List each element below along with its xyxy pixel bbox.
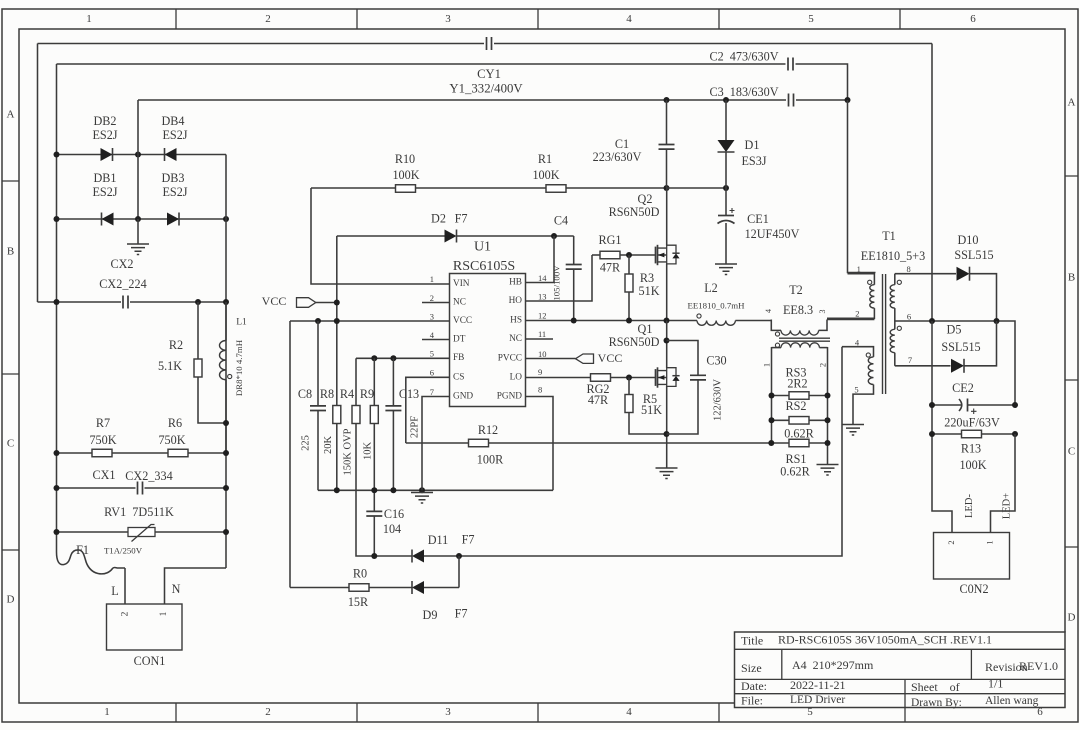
svg-text:4: 4	[430, 330, 435, 340]
wire VIN feed	[311, 188, 450, 284]
node DB1 row left	[54, 216, 60, 222]
svg-text:T1A/250V: T1A/250V	[104, 546, 143, 556]
svg-text:VCC: VCC	[598, 351, 623, 365]
capacitor CE1	[725, 188, 727, 215]
svg-text:22PF: 22PF	[409, 416, 420, 438]
svg-text:R9: R9	[360, 387, 374, 401]
svg-text:D2: D2	[431, 211, 446, 225]
node rail D1/CE1	[723, 185, 729, 191]
wire D10 row pin8	[895, 273, 956, 275]
svg-text:220uF/63V: 220uF/63V	[944, 415, 1000, 429]
ground Q1 source	[656, 468, 678, 479]
svg-text:VIN: VIN	[453, 279, 470, 289]
node ground row R9	[371, 487, 377, 493]
resistor R8	[333, 406, 341, 424]
node R13 right	[1012, 431, 1018, 437]
node CE2 right	[1012, 402, 1018, 408]
wire CON1 pin N	[165, 568, 227, 604]
svg-text:C8: C8	[298, 387, 312, 401]
transformer T2 secondary	[772, 347, 782, 349]
wire C3 rail to T1 pin1	[848, 100, 876, 273]
capacitor C16	[373, 490, 375, 511]
svg-text:C0N2: C0N2	[959, 582, 988, 596]
diode DB1	[102, 213, 114, 226]
svg-text:DB1: DB1	[93, 171, 116, 185]
node ground row C13	[390, 487, 396, 493]
node C2/C3 junction	[845, 97, 851, 103]
wire CS pin6 feed	[406, 377, 450, 443]
capacitor CX2	[123, 296, 128, 309]
resistor RS3	[789, 392, 809, 400]
svg-text:PGND: PGND	[497, 392, 523, 402]
diode DB4	[165, 148, 177, 161]
wire R12 row CS sense	[406, 442, 469, 444]
svg-text:C13: C13	[399, 387, 419, 401]
wire rail C2 net right	[796, 64, 848, 100]
node D11 cathode-D9 join	[456, 553, 462, 559]
resistor RG2	[591, 374, 611, 382]
wire CX2 row	[38, 301, 122, 303]
node R2/L1 bottom join	[223, 420, 229, 426]
wire D2 row	[337, 235, 445, 237]
svg-text:R3: R3	[640, 271, 654, 285]
diode D1	[725, 100, 727, 140]
node DB2 row left	[54, 152, 60, 158]
svg-text:RS6N50D: RS6N50D	[609, 205, 660, 219]
svg-text:Q2: Q2	[638, 192, 653, 206]
svg-text:RG1: RG1	[598, 233, 621, 247]
svg-text:D: D	[7, 594, 15, 606]
svg-text:CE1: CE1	[747, 212, 769, 226]
capacitor C30	[667, 341, 699, 376]
svg-text:B: B	[1068, 272, 1075, 284]
svg-text:RV1 7D511K: RV1 7D511K	[104, 505, 174, 519]
svg-text:D1: D1	[745, 138, 760, 152]
wire GND pin7 feed	[422, 397, 450, 491]
node R7 row right	[223, 450, 229, 456]
resistor R6	[168, 449, 188, 457]
wire HO pin13 feed	[526, 255, 593, 301]
svg-text:8: 8	[538, 384, 542, 394]
svg-text:750K: 750K	[158, 433, 185, 447]
transistor Q2	[655, 247, 657, 264]
wire top rail CY1 net	[38, 43, 485, 45]
wire D11 row	[374, 555, 412, 557]
svg-text:ES2J: ES2J	[162, 185, 187, 199]
svg-text:HS: HS	[510, 316, 522, 326]
svg-text:EE1810_5+3: EE1810_5+3	[861, 249, 925, 263]
svg-text:1: 1	[761, 363, 771, 367]
node RV1 row left	[54, 529, 60, 535]
svg-text:DB4: DB4	[161, 114, 184, 128]
svg-text:CS: CS	[453, 373, 464, 383]
svg-text:C1: C1	[615, 137, 629, 151]
svg-text:RSC6105S: RSC6105S	[453, 259, 515, 274]
node C3 rail D1 tap	[723, 97, 729, 103]
svg-text:B: B	[7, 246, 14, 258]
svg-text:U1: U1	[474, 240, 491, 255]
diode D10	[957, 267, 970, 281]
svg-text:104: 104	[383, 522, 401, 536]
node ground row R8	[334, 487, 340, 493]
svg-text:CX2: CX2	[110, 257, 133, 271]
svg-text:File:: File:	[741, 693, 763, 707]
wire HB pin feed	[526, 236, 555, 283]
wire U1 pin4 DT stub	[422, 339, 450, 341]
svg-text:100R: 100R	[477, 452, 504, 466]
svg-text:7: 7	[430, 387, 434, 397]
wire Q1 source	[666, 386, 668, 468]
ground RS1 right rail	[817, 465, 839, 476]
wire T2 secondary left rail	[771, 347, 773, 443]
svg-text:D: D	[1068, 612, 1076, 624]
border column ticks top	[176, 9, 900, 29]
resistor R3	[628, 255, 630, 274]
svg-text:1: 1	[430, 274, 434, 284]
resistor R9	[373, 358, 375, 405]
svg-text:Drawn By:: Drawn By:	[911, 697, 962, 709]
node DB1 row center	[135, 216, 141, 222]
svg-text:10K: 10K	[362, 442, 373, 461]
svg-text:2: 2	[946, 540, 956, 544]
svg-text:4: 4	[626, 706, 632, 718]
svg-text:NC: NC	[509, 334, 522, 344]
svg-text:C: C	[1068, 446, 1075, 458]
svg-text:C: C	[7, 438, 14, 450]
svg-text:10: 10	[538, 349, 547, 359]
wire ground row	[318, 489, 553, 491]
transformer T1 core	[883, 274, 886, 394]
capacitor C13	[392, 358, 394, 406]
wire D11 to aux winding	[424, 347, 842, 556]
wire RS2 row	[772, 419, 790, 421]
svg-text:47R: 47R	[588, 393, 609, 407]
svg-text:F7: F7	[455, 211, 468, 225]
transformer T2 core	[779, 338, 830, 341]
wire U1 pin11 NC stub	[526, 338, 554, 340]
svg-text:223/630V: 223/630V	[593, 150, 642, 164]
wire DB2-DB4 row	[57, 154, 227, 156]
svg-text:L1: L1	[236, 318, 247, 328]
svg-text:1: 1	[86, 13, 92, 25]
svg-text:R7: R7	[96, 416, 110, 430]
wire right bridge rail	[225, 155, 227, 569]
wire left dropper x290	[289, 321, 291, 588]
capacitor CX1	[138, 482, 143, 495]
wire RS1 row	[772, 442, 790, 444]
svg-text:PVCC: PVCC	[498, 354, 522, 364]
svg-text:1/1: 1/1	[988, 676, 1003, 690]
capacitor C8	[317, 321, 319, 406]
wire rail C3 net left	[138, 99, 786, 101]
border column ticks bottom	[176, 703, 719, 722]
varistor RV1	[128, 528, 155, 537]
svg-text:3: 3	[818, 310, 827, 314]
svg-text:LO: LO	[510, 373, 523, 383]
diode DB3	[167, 213, 179, 226]
wire top rail right drop to T1 pin6 row	[931, 44, 933, 322]
svg-text:3: 3	[430, 311, 434, 321]
node HS Q2 source	[664, 318, 670, 324]
svg-text:12: 12	[538, 310, 547, 320]
svg-text:F7: F7	[462, 532, 475, 546]
capacitor C2	[788, 58, 793, 71]
node RG1/R3/Q2 gate	[626, 252, 632, 258]
node CX1 row left	[54, 485, 60, 491]
node C3 rail C1 tap	[664, 97, 670, 103]
svg-text:ES3J: ES3J	[741, 154, 766, 168]
svg-text:ES2J: ES2J	[92, 185, 117, 199]
transformer T2 primary	[771, 320, 781, 331]
svg-text:REV1.0: REV1.0	[1019, 659, 1058, 673]
capacitor C4	[573, 236, 575, 265]
wire pin6 row	[895, 321, 1015, 405]
resistor RG1	[592, 254, 600, 256]
svg-text:2: 2	[121, 611, 131, 616]
node HS R3	[626, 318, 632, 324]
diode DB2	[101, 148, 113, 161]
svg-text:Date:: Date:	[741, 679, 767, 693]
svg-text:14: 14	[538, 273, 547, 283]
svg-text:T1: T1	[882, 229, 896, 243]
svg-text:15R: 15R	[348, 595, 369, 609]
node D11 row R4/C16 join	[371, 553, 377, 559]
svg-text:DT: DT	[453, 335, 466, 345]
resistor RS1	[789, 439, 809, 447]
svg-text:HB: HB	[509, 278, 522, 288]
node HS C4	[571, 318, 577, 324]
node RV1 row right	[223, 529, 229, 535]
node pin6 rail from top	[929, 318, 935, 324]
resistor R10	[396, 185, 416, 193]
svg-text:EE8.3: EE8.3	[783, 303, 813, 317]
wire VCC row pin3	[290, 320, 450, 322]
op-amp U1 RSC6105S box	[450, 274, 526, 407]
svg-text:0.62R: 0.62R	[784, 426, 814, 440]
wire RV1 row	[57, 531, 227, 533]
svg-text:3: 3	[445, 13, 451, 25]
svg-text:R10: R10	[395, 152, 415, 166]
connector CON1	[107, 604, 183, 650]
svg-text:R0: R0	[353, 566, 367, 580]
node ground row gnd stem	[419, 487, 425, 493]
svg-text:6: 6	[430, 367, 434, 377]
diode D5	[895, 365, 951, 367]
resistor R0	[349, 584, 369, 592]
wire rail to D1/CE1	[667, 187, 727, 189]
svg-text:A4 210*297mm: A4 210*297mm	[792, 658, 874, 672]
svg-text:5.1K: 5.1K	[158, 359, 182, 373]
svg-text:R2: R2	[169, 338, 183, 352]
diode D11	[412, 550, 424, 563]
capacitor C3	[789, 94, 794, 107]
resistor R5	[628, 378, 630, 395]
svg-text:DB2: DB2	[93, 114, 116, 128]
svg-text:Sheet of: Sheet of	[911, 680, 960, 694]
svg-text:CX1: CX1	[92, 468, 115, 482]
resistor R1	[546, 185, 566, 193]
svg-text:SSL515: SSL515	[941, 340, 980, 354]
svg-text:12UF450V: 12UF450V	[745, 227, 800, 241]
svg-text:7: 7	[908, 355, 912, 365]
svg-text:LED+: LED+	[1001, 493, 1012, 519]
svg-text:2: 2	[265, 706, 271, 718]
transistor Q1	[655, 369, 657, 386]
inductor L2	[697, 321, 735, 326]
wire R0 row	[290, 587, 349, 589]
svg-text:HO: HO	[509, 296, 523, 306]
svg-text:Allen wang: Allen wang	[985, 695, 1039, 707]
svg-text:ES2J: ES2J	[92, 128, 117, 142]
svg-text:1: 1	[857, 264, 861, 274]
svg-text:11: 11	[538, 329, 546, 339]
node rail C1/Q2 drain	[664, 185, 670, 191]
svg-text:2: 2	[430, 293, 434, 303]
wire T2 to T1 pin2	[827, 319, 874, 321]
wire RS3 row	[772, 395, 790, 397]
wire R7-R6 row	[57, 452, 227, 454]
ground CE1	[715, 264, 737, 275]
node R13 left	[929, 431, 935, 437]
svg-text:RS2: RS2	[785, 399, 806, 413]
svg-text:51K: 51K	[641, 403, 662, 417]
node CE2 left	[929, 402, 935, 408]
wire D9 riser	[458, 556, 460, 588]
transformer T1 secondary upper	[894, 274, 896, 285]
diode D2	[445, 230, 457, 243]
svg-text:100K: 100K	[392, 168, 419, 182]
wire rail C2 net left	[57, 63, 786, 65]
wire CX1 row	[57, 487, 136, 489]
node DB1 row right	[223, 216, 229, 222]
svg-text:F1: F1	[76, 543, 89, 557]
svg-text:225: 225	[300, 435, 311, 451]
ground T1 pin5	[842, 425, 864, 436]
svg-text:100K: 100K	[532, 168, 559, 182]
svg-text:R13: R13	[961, 441, 981, 455]
svg-text:CX2_334: CX2_334	[125, 469, 172, 483]
node RS3 right	[825, 393, 831, 399]
svg-text:DB3: DB3	[161, 171, 184, 185]
node RS1 right	[825, 440, 831, 446]
wire LO pin9 feed	[526, 377, 591, 379]
node CX1 row right	[223, 485, 229, 491]
border row ticks left	[2, 181, 19, 550]
svg-text:1: 1	[159, 611, 169, 616]
capacitor CY1	[487, 37, 492, 50]
fuse F1	[57, 550, 126, 574]
wire FB row pin5	[356, 357, 450, 359]
svg-text:F7: F7	[455, 606, 468, 620]
node RS3 left	[769, 393, 775, 399]
svg-text:C3 183/630V: C3 183/630V	[709, 85, 778, 99]
node CX2 row L1 top	[223, 299, 229, 305]
wire Q2 source	[666, 264, 668, 321]
svg-text:9: 9	[538, 367, 542, 377]
svg-text:5: 5	[430, 348, 434, 358]
node pin6 D10/D5 cathode	[994, 318, 1000, 324]
svg-text:C2 473/630V: C2 473/630V	[709, 49, 778, 63]
resistor RS2	[789, 417, 809, 425]
svg-text:D9: D9	[423, 608, 438, 622]
wire T2 secondary right rail	[827, 347, 829, 464]
svg-text:CE2: CE2	[952, 381, 974, 395]
svg-text:CX2_224: CX2_224	[99, 277, 146, 291]
svg-text:1: 1	[104, 706, 110, 718]
node FB C13	[390, 355, 396, 361]
svg-text:150K OVP: 150K OVP	[342, 428, 353, 475]
wire R13 row	[932, 433, 962, 435]
wire Q2 drain	[666, 188, 668, 246]
svg-text:A: A	[7, 109, 15, 121]
node RS2 right	[825, 417, 831, 423]
wire HS row pin12	[526, 320, 698, 322]
svg-text:Size: Size	[741, 661, 762, 675]
svg-text:2: 2	[817, 363, 827, 367]
svg-text:C30: C30	[706, 353, 726, 367]
svg-text:6: 6	[907, 311, 911, 321]
svg-text:5: 5	[854, 384, 858, 394]
svg-text:DR8*10 4.7mH: DR8*10 4.7mH	[234, 339, 244, 396]
node VCC flag junction	[334, 300, 340, 306]
node FB R9	[371, 355, 377, 361]
svg-text:D10: D10	[958, 233, 979, 247]
node CX2 row left rail	[54, 299, 60, 305]
svg-text:D11: D11	[428, 533, 449, 547]
node Q1 source junction	[664, 431, 670, 437]
svg-text:LED Driver: LED Driver	[790, 694, 845, 706]
connector CON2	[934, 533, 1010, 580]
svg-text:51K: 51K	[639, 284, 660, 298]
power flag VCC PVCC	[526, 358, 576, 360]
resistor R2	[197, 302, 199, 359]
transformer T1 primary	[848, 274, 875, 285]
node DB2-DB4 center	[135, 152, 141, 158]
title block frame	[735, 632, 1066, 708]
wire Q1 drain	[666, 321, 668, 369]
svg-text:13: 13	[538, 291, 547, 301]
svg-text:R12: R12	[478, 423, 498, 437]
svg-text:8: 8	[906, 264, 910, 274]
node Q1 drain C30 tap	[664, 338, 670, 344]
svg-text:105/100V: 105/100V	[552, 265, 562, 301]
wire center bridge vertical	[137, 100, 139, 219]
svg-text:L: L	[111, 584, 118, 598]
diode D9	[412, 581, 424, 594]
wire VCC flag to vertical	[316, 302, 337, 304]
svg-text:47R: 47R	[600, 260, 621, 274]
svg-text:CY1: CY1	[477, 67, 501, 81]
ground bridge center	[137, 219, 139, 244]
svg-text:SSL515: SSL515	[954, 248, 993, 262]
wire CON1 pin L	[124, 568, 126, 604]
wire U1 pin2 NC stub	[422, 302, 450, 304]
wire VCC vertical	[336, 236, 338, 406]
svg-text:T2: T2	[789, 283, 803, 297]
svg-text:FB: FB	[453, 353, 464, 363]
svg-text:R4: R4	[340, 387, 354, 401]
svg-text:LED-: LED-	[964, 494, 975, 518]
svg-text:C4: C4	[554, 213, 568, 227]
resistor R13	[962, 430, 982, 438]
node R7 row left	[54, 450, 60, 456]
svg-text:Q1: Q1	[638, 322, 653, 336]
power flag VCC left	[297, 298, 316, 308]
wire output left rail	[932, 321, 952, 533]
resistor R12	[469, 439, 489, 447]
wire left loop vertical	[37, 44, 39, 303]
ground U1 GND	[411, 493, 433, 504]
